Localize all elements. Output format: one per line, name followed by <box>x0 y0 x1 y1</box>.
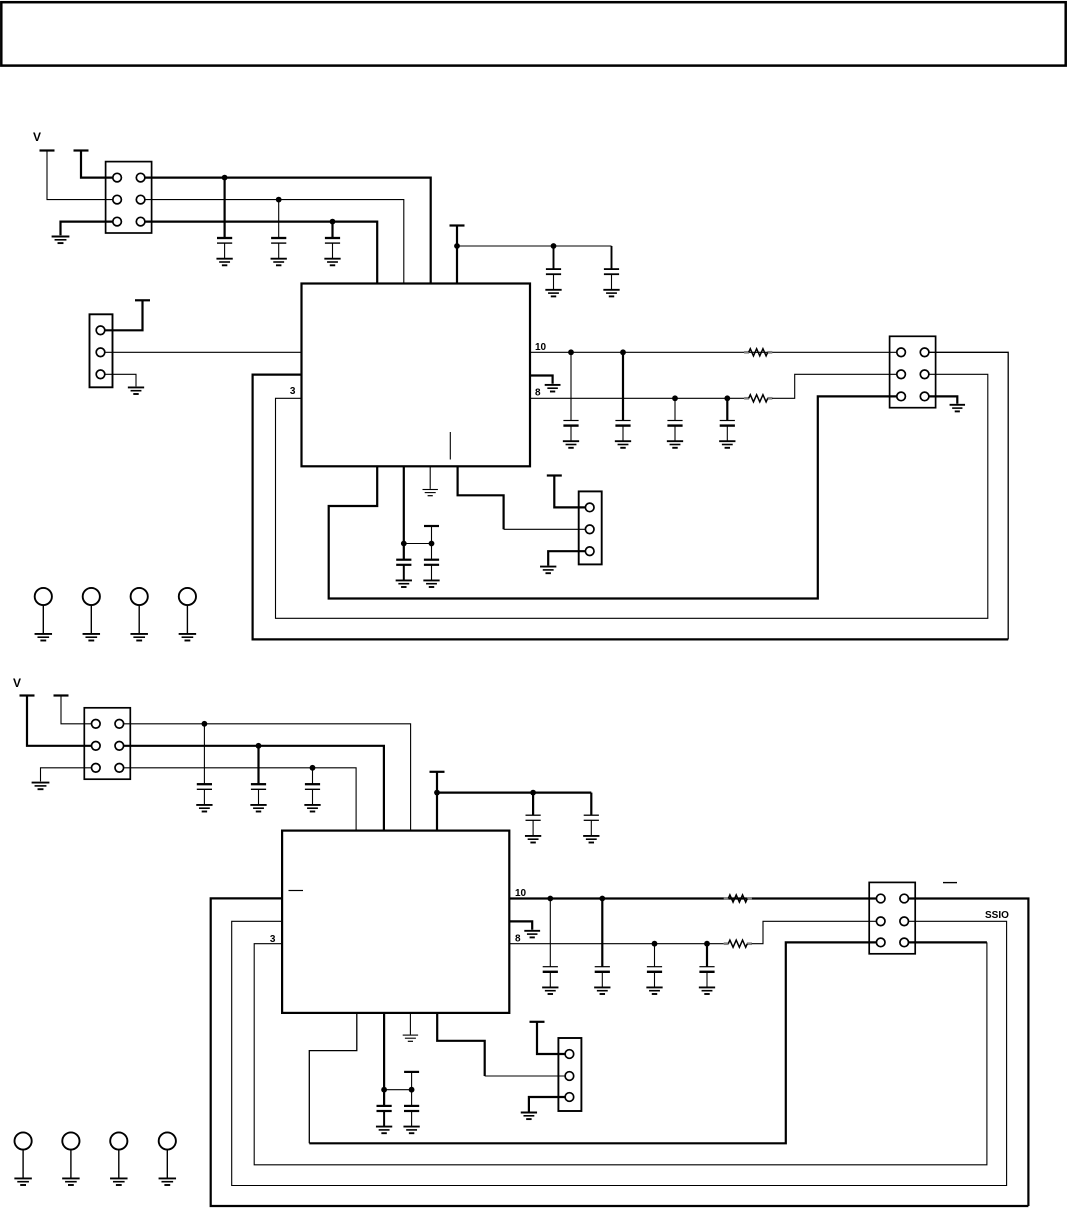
wire pin8 U2 to R4 <box>509 943 724 945</box>
wire U1 bottom pin C to J4 <box>458 466 504 529</box>
capacitor C21 <box>377 1106 392 1126</box>
IC U1 <box>302 284 531 467</box>
ground C6 <box>563 441 579 448</box>
terminal T8 lower <box>54 694 69 696</box>
test point TP8 <box>159 1132 176 1185</box>
ground J3 row3 <box>950 405 965 412</box>
resistor R4 on pin8 net <box>724 940 752 947</box>
capacitor C18 feed wire <box>601 899 603 967</box>
node pin8/C20 <box>704 941 710 947</box>
wire C10 to C11 <box>404 543 432 545</box>
ground C4 <box>545 290 561 297</box>
capacitor C20 <box>699 967 714 987</box>
header J4 (1x3) <box>579 491 602 564</box>
wire J5 row1 to U2 top pin <box>124 724 411 831</box>
capacitor C4 <box>546 269 561 289</box>
wire loop3 U2 left pin to J6 row2 SSIO <box>232 921 1007 1185</box>
wire pin10 U2 to J6 row1 <box>509 897 876 899</box>
ground C7 <box>615 441 631 448</box>
wire loop2 pin3 U2 <box>254 942 987 1164</box>
wire C21 to C22 <box>384 1089 412 1091</box>
capacitor C3 <box>325 238 340 258</box>
node pin10/C18 <box>599 896 605 902</box>
resistor R1 on pin10 net <box>744 349 772 356</box>
header J3 (3x2) <box>890 336 936 407</box>
capacitor C4 feed wire <box>553 246 555 269</box>
test point TP7 <box>110 1132 127 1185</box>
U2 internal mark <box>289 890 304 892</box>
capacitor C12 <box>197 784 212 804</box>
test point TP2 <box>83 588 100 641</box>
wire T6 to J4 pin1 <box>554 476 585 508</box>
ground C17 <box>542 987 558 994</box>
capacitor C14 <box>305 784 320 804</box>
wire T7 to J5 row2 <box>27 696 92 746</box>
capacitor C20 feed wire <box>706 944 708 967</box>
ground C8 <box>667 441 683 448</box>
capacitor C17 <box>543 967 558 987</box>
ground C10 <box>396 580 412 587</box>
node T3/C4 branch <box>454 243 460 249</box>
header J2 (1x3) <box>90 314 113 387</box>
pin label 3 U1 <box>290 386 296 397</box>
ground C21 <box>376 1127 392 1134</box>
ground C1 <box>216 259 232 266</box>
capacitor C14 feed wire <box>312 768 314 784</box>
capacitor C9 feed wire <box>726 398 728 420</box>
wire T3 to U1 top pin <box>456 226 458 284</box>
node row2/C2 <box>276 197 282 203</box>
capacitor C19 <box>647 967 662 987</box>
wire U2 mid pin to ground <box>509 921 532 929</box>
terminal T6 at J4 <box>547 474 562 476</box>
wire U1 ground pin <box>429 466 431 489</box>
terminal T5 at C11 <box>424 525 439 527</box>
node C22 <box>409 1087 415 1093</box>
node T9/C15 branch <box>434 790 440 796</box>
node pin10/C6 <box>568 349 574 355</box>
ground U1 bottom <box>423 490 438 496</box>
wire J2 pin1 to T4 <box>105 300 143 330</box>
capacitor C2 feed wire <box>278 200 280 238</box>
net label V top <box>33 130 41 144</box>
capacitor C22 <box>404 1106 419 1126</box>
ground J4 pin3 <box>540 567 556 574</box>
test point TP4 <box>179 588 196 641</box>
pin label 10 U1 <box>535 342 547 353</box>
ground C19 <box>646 987 662 994</box>
ground C18 <box>594 987 610 994</box>
node pin8/C8 <box>672 395 678 401</box>
wire T10 to node <box>411 1072 413 1090</box>
wire U2 bottom pin A inner loop left <box>309 1013 357 1143</box>
capacitor C1 <box>217 238 232 258</box>
capacitor C18 <box>595 967 610 987</box>
wire J7 pin3 to ground <box>529 1097 565 1112</box>
ground C22 <box>403 1127 419 1134</box>
ground C15 <box>525 836 541 843</box>
test point TP5 <box>14 1132 31 1185</box>
wire T2 to J1 row1 <box>81 151 113 178</box>
terminal T3 over U1 <box>450 224 465 226</box>
node row1/C12 <box>202 721 208 727</box>
capacitor C9 <box>720 421 735 441</box>
wire T9 branch to C15 C16 <box>437 791 591 793</box>
wire J4 pin3 to ground <box>548 551 585 565</box>
wire to J4 pin2 <box>504 528 587 530</box>
terminal T4 at J2 <box>135 299 150 301</box>
wire T1 to J1 row2 <box>47 151 113 200</box>
wire U2 bottom pin C to J7 <box>437 1013 485 1076</box>
svg-text:SSIO: SSIO <box>985 910 1009 921</box>
ground C3 <box>324 259 340 266</box>
capacitor C8 <box>667 421 682 441</box>
U1 internal mark <box>449 432 451 460</box>
capacitor C10 feed wire <box>403 544 405 560</box>
node pin10/C7 <box>620 349 626 355</box>
capacitor C7 <box>615 421 630 441</box>
terminal T2 top <box>74 149 89 151</box>
capacitor C6 feed wire <box>570 352 572 420</box>
wire J6 row1 outer loop <box>909 899 1029 1207</box>
ground C20 <box>699 987 715 994</box>
ground C9 <box>719 441 735 448</box>
wire T8 to J5 row1 <box>61 696 92 724</box>
node row2/C13 <box>256 743 262 749</box>
ground C16 <box>583 836 599 843</box>
net label V lower <box>13 676 21 690</box>
net label SSIO <box>985 910 1009 921</box>
wire J1 row2 to U1 top pin <box>145 200 404 284</box>
test point TP6 <box>62 1132 79 1185</box>
wire J5 row2 to U2 top pin <box>124 746 384 831</box>
capacitor C17 feed wire <box>549 899 551 967</box>
node pin10/C17 <box>547 896 553 902</box>
capacitor C16 <box>584 815 599 835</box>
header J7 (1x3) <box>558 1038 581 1111</box>
wire J1 row1 to U1 top pin <box>145 178 431 284</box>
ground C2 <box>271 259 287 266</box>
test point TP3 <box>130 588 147 641</box>
wire outer loop U1 left pin <box>253 375 1009 640</box>
pin label 3 U2 <box>270 934 276 945</box>
wire inner loop U1 bottom pin to J3 row3 <box>329 396 897 598</box>
wire R4 to J6 row2 <box>752 921 877 943</box>
header J1 (3x2) <box>106 162 152 233</box>
node row1/C1 <box>222 175 228 181</box>
wire T11 to J7 pin1 <box>537 1022 565 1054</box>
capacitor C12 feed wire <box>203 724 205 784</box>
pin label 8 U1 <box>535 387 541 398</box>
wire T5 to node <box>431 526 433 544</box>
capacitor C5 feed wire <box>611 246 613 269</box>
node row3/C14 <box>310 765 316 771</box>
svg-text:V: V <box>13 676 21 690</box>
ground C13 <box>250 805 266 812</box>
capacitor C2 <box>271 238 286 258</box>
pin label 10 U2 <box>515 888 527 899</box>
wire J6 row3 col2 stub <box>909 941 987 943</box>
ground C11 <box>423 580 439 587</box>
ground C5 <box>603 290 619 297</box>
capacitor C21 feed wire <box>383 1090 385 1106</box>
ground C12 <box>196 805 212 812</box>
wire J1 row3 to U1 top pin <box>145 222 377 284</box>
ground U2 mid pin <box>524 931 540 938</box>
wire outer loop U2 left pin <box>211 898 1029 1206</box>
capacitor C7 feed wire <box>622 352 624 420</box>
wire J3 row3 to ground <box>929 396 957 403</box>
ground U1 mid pin <box>545 385 561 392</box>
wire J1 row3 to ground <box>61 222 113 236</box>
terminal T1 top (V rail) <box>40 149 55 151</box>
svg-text:8: 8 <box>515 934 521 945</box>
capacitor C19 feed wire <box>654 944 656 967</box>
test point TP1 <box>35 588 52 641</box>
capacitor C13 <box>251 784 266 804</box>
terminal T11 at J7 <box>530 1021 545 1023</box>
capacitor C11 <box>424 560 439 580</box>
svg-text:8: 8 <box>535 387 541 398</box>
terminal T10 at C22 <box>404 1071 419 1073</box>
title block frame <box>1 2 1065 65</box>
label fragment above J6 <box>943 882 957 884</box>
node row3/C3 <box>330 219 336 225</box>
node pin B/C10 <box>401 541 407 547</box>
terminal T7 lower (V rail) <box>20 694 35 696</box>
wire pin10 U1 to J3 row1 <box>530 351 897 353</box>
node C4 <box>551 243 557 249</box>
wire U1 bottom pin B <box>403 466 405 543</box>
capacitor C10 <box>396 560 411 580</box>
resistor R2 on pin8 net <box>744 395 772 402</box>
capacitor C1 feed wire <box>224 178 226 238</box>
ground U2 bottom <box>403 1035 418 1041</box>
svg-text:10: 10 <box>535 342 547 353</box>
capacitor C5 <box>604 269 619 289</box>
header J6 (3x2) <box>869 882 915 953</box>
ground at J2 pin3 <box>128 387 144 394</box>
node C15 <box>530 790 536 796</box>
svg-text:V: V <box>33 130 41 144</box>
wire pin8 U1 to R2 <box>530 397 744 399</box>
capacitor C16 feed wire <box>590 793 592 816</box>
capacitor C6 <box>563 421 578 441</box>
wire U2 bottom pin B <box>383 1013 385 1090</box>
svg-text:3: 3 <box>290 386 296 397</box>
node C11 <box>429 541 435 547</box>
capacitor C15 <box>526 815 541 835</box>
capacitor C22 feed wire <box>411 1090 413 1106</box>
wire middle loop pin3 to J3 row2 <box>276 374 988 618</box>
capacitor C13 feed wire <box>257 746 259 784</box>
node pin B/C21 <box>381 1087 387 1093</box>
wire J5 row3 to U2 top pin <box>124 768 357 831</box>
node pin8/C9 <box>724 395 730 401</box>
capacitor C8 feed wire <box>674 398 676 420</box>
resistor R3 on pin10 net <box>724 895 752 902</box>
ground J7 pin3 <box>521 1113 537 1120</box>
wire J5 row3 to ground <box>41 768 92 782</box>
ground C14 <box>304 805 320 812</box>
capacitor C11 feed wire <box>431 544 433 560</box>
wire R2 to J3 row2 <box>772 374 897 398</box>
wire T3 branch to C4 C5 <box>457 245 612 247</box>
wire J2 pin2 to U1 left pin <box>105 351 302 353</box>
IC U2 <box>282 831 509 1013</box>
wire J3 row1 outer loop right <box>929 352 1008 639</box>
wire to J7 pin2 <box>485 1075 565 1077</box>
capacitor C3 feed wire <box>331 222 333 238</box>
capacitor C15 feed wire <box>532 793 534 816</box>
wire U1 mid pin to ground <box>530 376 553 384</box>
ground at J5 row3 <box>32 783 50 790</box>
node pin8/C19 <box>652 941 658 947</box>
wire T9 to U2 top pin <box>436 772 438 831</box>
pin label 8 U2 <box>515 934 521 945</box>
terminal T9 over U2 <box>430 771 445 773</box>
wire inner loop to J6 row3 <box>309 942 876 1143</box>
wire J2 pin3 to ground <box>105 374 136 386</box>
ground at J1 row3 <box>52 237 70 244</box>
wire U2 ground pin <box>409 1013 411 1035</box>
header J5 (3x2) <box>84 708 130 779</box>
